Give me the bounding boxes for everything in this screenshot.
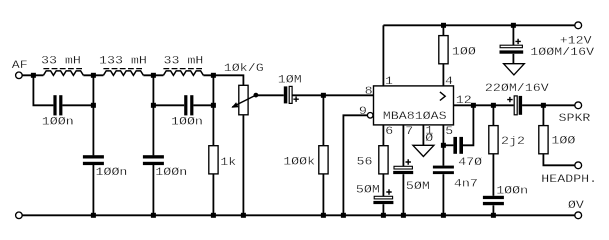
- svg-text:1: 1: [385, 75, 393, 88]
- svg-text:ØV: ØV: [568, 199, 585, 212]
- svg-text:8: 8: [365, 85, 373, 98]
- svg-text:1ØØM/16V: 1ØØM/16V: [530, 46, 594, 59]
- svg-text:5: 5: [445, 125, 453, 138]
- svg-text:1ØØn: 1ØØn: [171, 115, 203, 128]
- svg-text:7: 7: [405, 125, 413, 138]
- svg-text:1ØØn: 1ØØn: [496, 184, 528, 197]
- svg-text:22ØM/16V: 22ØM/16V: [485, 82, 549, 95]
- svg-text:AF: AF: [12, 59, 28, 72]
- svg-text:HEADPH.: HEADPH.: [541, 173, 597, 186]
- svg-text:56: 56: [357, 155, 373, 168]
- svg-text:5ØM: 5ØM: [356, 183, 380, 196]
- svg-text:133 mH: 133 mH: [99, 54, 147, 67]
- svg-text:47Ø: 47Ø: [458, 156, 483, 169]
- svg-text:1ØM: 1ØM: [278, 73, 302, 86]
- svg-text:1ØØ: 1ØØ: [452, 45, 477, 58]
- svg-text:1ØØn: 1ØØn: [155, 166, 187, 179]
- svg-text:33 mH: 33 mH: [164, 54, 204, 67]
- svg-text:MBA81ØAS: MBA81ØAS: [383, 110, 447, 123]
- svg-text:1k: 1k: [220, 156, 236, 169]
- svg-text:1ØØk: 1ØØk: [283, 155, 315, 168]
- svg-text:12: 12: [456, 94, 472, 107]
- svg-text:33 mH: 33 mH: [41, 54, 81, 67]
- svg-text:1ØØn: 1ØØn: [42, 115, 74, 128]
- svg-text:4n7: 4n7: [454, 177, 478, 190]
- svg-text:1Øk/G: 1Øk/G: [224, 62, 264, 75]
- svg-text:Ø: Ø: [425, 132, 434, 145]
- svg-text:4: 4: [445, 75, 453, 88]
- svg-text:6: 6: [385, 125, 393, 138]
- svg-text:5ØM: 5ØM: [406, 180, 430, 193]
- svg-text:2j2: 2j2: [501, 135, 525, 148]
- svg-text:9: 9: [359, 105, 367, 118]
- svg-text:SPKR: SPKR: [559, 112, 591, 125]
- svg-text:1ØØn: 1ØØn: [96, 166, 128, 179]
- svg-text:1ØØ: 1ØØ: [551, 134, 576, 147]
